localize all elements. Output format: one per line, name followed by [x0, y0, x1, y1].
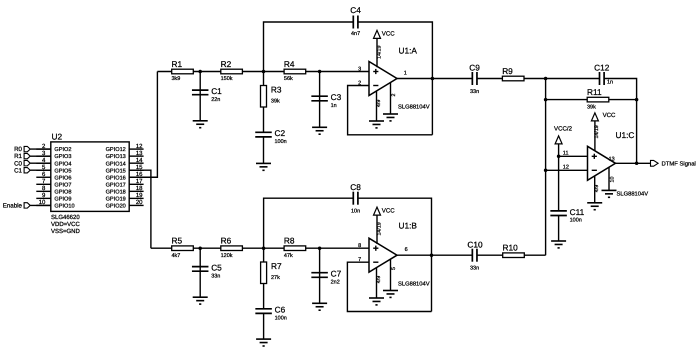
- U1:A VCC pin: [376, 38, 378, 67]
- node R11 left: [544, 98, 548, 102]
- svg-text:SLG88104V: SLG88104V: [398, 104, 430, 111]
- resistor R1: [172, 59, 194, 82]
- svg-text:C10: C10: [467, 239, 483, 249]
- node U1:C inverting: [544, 169, 548, 173]
- node top-B: [262, 70, 266, 74]
- op-amp U1:B: [369, 238, 397, 272]
- wire C12 right: [604, 79, 636, 100]
- svg-text:5: 5: [391, 267, 397, 270]
- svg-text:14/19: 14/19: [376, 222, 382, 235]
- svg-text:2: 2: [391, 93, 397, 96]
- svg-text:13: 13: [136, 150, 143, 157]
- svg-text:R5: R5: [172, 236, 183, 246]
- svg-text:12: 12: [136, 143, 143, 150]
- svg-text:14/19: 14/19: [376, 46, 382, 59]
- capacitor C5: [199, 248, 201, 297]
- ground under C2: [256, 163, 271, 170]
- ground U1:C pin 4/9: [587, 203, 602, 210]
- ground under C5: [193, 297, 208, 304]
- svg-text:C3: C3: [331, 92, 342, 102]
- svg-text:R7: R7: [271, 261, 282, 271]
- wire U1:C pin 11: [559, 155, 588, 157]
- svg-text:GPIO15: GPIO15: [106, 168, 126, 174]
- wire GPIO15 to bottom chain: [129, 170, 151, 248]
- svg-text:56k: 56k: [284, 76, 293, 82]
- svg-text:GPIO13: GPIO13: [106, 154, 126, 160]
- output port DTMF Signal: [651, 160, 659, 166]
- capacitor C3: [319, 72, 321, 128]
- svg-text:4/9: 4/9: [376, 100, 382, 107]
- svg-text:GPIO10: GPIO10: [54, 204, 74, 210]
- wire GPIO16 to top chain: [129, 72, 157, 178]
- U1:A power pin 4/9: [376, 91, 378, 121]
- ground U1:A pin 4/9: [369, 121, 384, 128]
- ground under C7: [312, 303, 327, 310]
- capacitor C2: [263, 137, 265, 164]
- U1:A feedback wire pin 2: [348, 86, 433, 135]
- svg-text:VCC: VCC: [603, 112, 616, 119]
- svg-text:12: 12: [563, 165, 569, 171]
- U1:C pin 10 stub: [608, 167, 610, 190]
- U1:B power pin 4/9: [376, 268, 378, 298]
- svg-text:R3: R3: [271, 84, 282, 94]
- resistor R7: [263, 248, 265, 309]
- wire C9 to R9: [477, 78, 545, 80]
- node mix top: [544, 77, 548, 81]
- node top-C: [318, 70, 322, 74]
- resistor R11: [546, 99, 637, 101]
- ground U1:A small: [383, 114, 398, 121]
- svg-text:1n: 1n: [607, 79, 613, 85]
- svg-text:3k9: 3k9: [172, 76, 181, 82]
- resistor R10: [503, 243, 525, 258]
- capacitor C12: [600, 72, 605, 85]
- wire top chain: [157, 71, 369, 73]
- resistor R3: [263, 72, 265, 133]
- node VCC/2: [557, 155, 561, 159]
- wire mix vertical: [545, 79, 547, 256]
- resistor R8: [284, 236, 306, 259]
- node bot-C: [318, 246, 322, 250]
- svg-text:U1:A: U1:A: [399, 46, 418, 56]
- wire C8 to output: [358, 198, 431, 311]
- svg-text:47k: 47k: [284, 253, 293, 259]
- svg-text:DTMF Signal: DTMF Signal: [662, 161, 696, 168]
- ground U1:C small: [602, 190, 617, 197]
- svg-text:C9: C9: [469, 63, 480, 73]
- input port R1: [14, 153, 51, 160]
- svg-text:GPIO9: GPIO9: [54, 196, 71, 202]
- svg-text:3: 3: [358, 66, 361, 72]
- node U1:A output: [431, 77, 435, 81]
- ground under C1: [193, 121, 208, 128]
- svg-text:GPIO4: GPIO4: [54, 161, 71, 167]
- capacitor C7: [319, 248, 321, 303]
- svg-text:100n: 100n: [275, 316, 287, 322]
- VCC/2 power symbol: [554, 125, 573, 144]
- svg-text:4n7: 4n7: [351, 31, 360, 37]
- svg-text:18: 18: [136, 185, 143, 192]
- IC U2 SLG46620: [36, 132, 143, 235]
- svg-text:1: 1: [404, 71, 407, 77]
- svg-text:R8: R8: [284, 236, 295, 246]
- svg-text:GPIO2: GPIO2: [54, 147, 71, 153]
- ground U1:B pin 4/9: [369, 298, 384, 305]
- svg-text:4k7: 4k7: [172, 253, 181, 259]
- svg-text:39k: 39k: [271, 98, 280, 104]
- input port C0: [14, 160, 51, 167]
- wire U1:C pin 12: [546, 169, 588, 171]
- svg-text:100n: 100n: [275, 139, 287, 145]
- U1:C output wire pin 13: [616, 162, 651, 164]
- svg-text:GPIO12: GPIO12: [106, 147, 126, 153]
- svg-text:20: 20: [136, 199, 143, 206]
- capacitor C10: [472, 249, 477, 262]
- svg-text:33n: 33n: [211, 273, 220, 279]
- svg-text:C11: C11: [570, 207, 585, 217]
- svg-text:33n: 33n: [470, 89, 479, 95]
- svg-text:R2: R2: [221, 59, 232, 69]
- U1:B feedback wire pin 7: [347, 262, 431, 311]
- svg-text:VCC: VCC: [382, 31, 395, 38]
- svg-text:14/19: 14/19: [594, 125, 600, 138]
- capacitor C9: [472, 72, 477, 85]
- ground under C11: [551, 241, 566, 248]
- node U1:C output: [635, 162, 639, 166]
- svg-text:GPIO18: GPIO18: [106, 189, 126, 195]
- svg-text:VSS=GND: VSS=GND: [51, 228, 81, 235]
- node R11 right: [635, 98, 639, 102]
- svg-text:R6: R6: [221, 236, 232, 246]
- svg-text:13: 13: [609, 157, 615, 163]
- svg-text:4/9: 4/9: [594, 185, 600, 192]
- svg-text:GPIO14: GPIO14: [106, 161, 126, 167]
- svg-text:GPIO8: GPIO8: [54, 189, 71, 195]
- svg-text:27k: 27k: [271, 275, 280, 281]
- svg-text:GPIO7: GPIO7: [54, 182, 71, 188]
- svg-text:C1: C1: [211, 86, 222, 96]
- svg-text:Enable: Enable: [3, 203, 23, 210]
- wire C8 branch left: [264, 198, 353, 248]
- U1:C power pin 4/9: [594, 176, 596, 203]
- svg-text:C4: C4: [350, 5, 361, 15]
- U1:C VCC pin: [594, 121, 596, 151]
- capacitor C8: [353, 192, 358, 205]
- svg-text:14: 14: [136, 157, 143, 164]
- svg-text:R4: R4: [284, 59, 295, 69]
- svg-text:U1:B: U1:B: [399, 220, 418, 230]
- svg-text:GPIO3: GPIO3: [54, 154, 71, 160]
- svg-text:C7: C7: [331, 269, 342, 279]
- svg-text:C8: C8: [350, 182, 361, 192]
- svg-text:150k: 150k: [221, 76, 233, 82]
- node U1:B output: [430, 253, 434, 257]
- capacitor C11: [558, 156, 560, 211]
- svg-text:R10: R10: [503, 243, 519, 253]
- U1:B output wire pin 6: [397, 254, 472, 256]
- node top-A: [198, 70, 202, 74]
- svg-text:VCC/2: VCC/2: [554, 125, 573, 132]
- svg-text:10n: 10n: [351, 208, 360, 214]
- U1:B VCC pin: [376, 215, 378, 244]
- svg-text:GPIO17: GPIO17: [106, 182, 126, 188]
- resistor R9: [502, 66, 524, 81]
- svg-text:C2: C2: [275, 128, 286, 138]
- svg-text:U2: U2: [52, 132, 63, 142]
- U1:B pin 5 stub: [390, 259, 392, 290]
- resistor R2: [221, 59, 243, 82]
- svg-text:2: 2: [358, 80, 361, 86]
- input port R0: [14, 146, 51, 153]
- svg-text:C6: C6: [275, 305, 286, 315]
- svg-text:7: 7: [358, 257, 361, 263]
- svg-text:6: 6: [405, 247, 408, 253]
- U1:A pin 2 stub: [390, 82, 392, 114]
- capacitor C1: [199, 72, 201, 121]
- svg-text:R11: R11: [587, 87, 602, 97]
- svg-text:11: 11: [563, 151, 569, 157]
- wire to C12: [546, 78, 599, 80]
- resistor R4: [284, 59, 306, 82]
- svg-text:100n: 100n: [570, 218, 582, 224]
- svg-text:C5: C5: [211, 263, 222, 273]
- resistor R5: [172, 236, 194, 259]
- capacitor C4: [353, 16, 358, 29]
- svg-text:C0: C0: [14, 160, 22, 167]
- wire C10 to R10: [477, 254, 545, 256]
- svg-text:R0: R0: [14, 146, 22, 153]
- svg-text:U1:C: U1:C: [616, 130, 635, 140]
- svg-text:17: 17: [136, 178, 143, 185]
- svg-text:SLG88104V: SLG88104V: [617, 190, 649, 197]
- ground under C3: [312, 127, 327, 134]
- capacitor C6: [263, 313, 265, 339]
- svg-text:1n: 1n: [331, 103, 337, 109]
- svg-text:39k: 39k: [587, 104, 596, 110]
- ground U1:B small: [383, 291, 398, 298]
- svg-text:22n: 22n: [211, 97, 220, 103]
- svg-text:10: 10: [609, 177, 615, 183]
- wire C4 branch left: [264, 22, 353, 72]
- svg-text:SLG88104V: SLG88104V: [398, 281, 430, 288]
- svg-text:GPIO6: GPIO6: [54, 175, 71, 181]
- svg-text:R1: R1: [14, 153, 22, 160]
- svg-text:VCC: VCC: [382, 207, 395, 214]
- svg-text:GPIO19: GPIO19: [106, 196, 126, 202]
- svg-text:33n: 33n: [470, 266, 479, 272]
- op-amp U1:C: [588, 146, 616, 180]
- node bot-B: [262, 246, 266, 250]
- svg-text:120k: 120k: [221, 253, 233, 259]
- op-amp U1:A: [369, 62, 397, 96]
- wire bottom chain: [151, 247, 369, 249]
- ground under C6: [256, 339, 271, 346]
- wire C4 to output: [358, 22, 432, 135]
- svg-text:4/9: 4/9: [376, 276, 382, 283]
- svg-text:GPIO16: GPIO16: [106, 175, 126, 181]
- svg-text:8: 8: [358, 243, 361, 249]
- svg-text:SLG46620: SLG46620: [51, 214, 80, 221]
- svg-text:C1: C1: [14, 167, 22, 174]
- svg-text:R1: R1: [172, 59, 183, 69]
- svg-text:C12: C12: [594, 63, 610, 73]
- svg-text:19: 19: [136, 192, 143, 199]
- svg-text:2n2: 2n2: [331, 280, 340, 286]
- svg-text:GPIO20: GPIO20: [106, 204, 126, 210]
- svg-text:GPIO5: GPIO5: [54, 168, 71, 174]
- U1:A output wire pin 1: [397, 78, 472, 80]
- wire feedback down: [636, 100, 638, 164]
- input port C1: [14, 167, 51, 174]
- resistor R6: [221, 236, 243, 259]
- input port Enable: [3, 203, 51, 210]
- svg-text:R9: R9: [502, 66, 513, 76]
- svg-text:VDD=VCC: VDD=VCC: [51, 221, 81, 228]
- node bot-A: [198, 246, 202, 250]
